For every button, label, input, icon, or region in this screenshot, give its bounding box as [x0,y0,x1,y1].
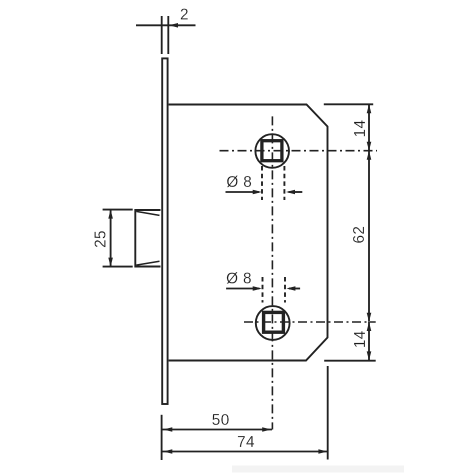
dimension 2 (faceplate thickness) [136,16,196,54]
latch bevel top [136,211,159,215]
upper spindle hole U1 [255,134,289,168]
svg-text:14: 14 [352,330,369,348]
dimension Ø8 lower spindle [226,277,300,303]
dimension 25 (latch height) [103,210,133,267]
vertical centerline [271,116,273,429]
lower spindle hole U2 [256,306,290,340]
dimension 14 top [324,104,373,150]
latch bevel bottom [136,261,159,265]
dimension Ø8 upper spindle [226,166,303,200]
svg-text:14: 14 [352,120,369,138]
latch bolt [135,210,160,267]
svg-text:50: 50 [212,412,230,429]
faint smudge artifact [232,466,404,473]
dimension 50 (backset) [162,415,272,460]
dimension 62 [367,151,372,322]
svg-text:2: 2 [180,7,189,24]
svg-text:Ø 8: Ø 8 [226,271,252,288]
faceplate [162,58,167,404]
svg-text:25: 25 [92,230,109,248]
svg-text:Ø 8: Ø 8 [226,174,252,191]
dimension 14 bottom [324,322,376,361]
dimension 74 (overall depth) [162,366,328,460]
upper spindle centerline [220,150,378,152]
svg-text:62: 62 [351,226,368,244]
svg-text:74: 74 [237,434,255,451]
lock body [169,105,328,361]
lower spindle centerline [244,321,376,323]
